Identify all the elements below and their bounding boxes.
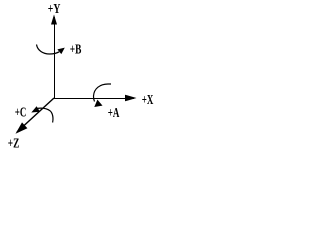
Z axis line — [17, 98, 54, 132]
rotation arc C around Z axis — [36, 108, 53, 122]
rotation arc A around X axis — [93, 84, 111, 102]
svg-text:+C: +C — [15, 106, 27, 121]
X axis line — [54, 98, 134, 100]
arrowhead of C arc — [31, 106, 40, 112]
svg-text:+X: +X — [142, 93, 154, 108]
svg-text:+Z: +Z — [8, 136, 20, 151]
arrowhead of B arc — [57, 48, 64, 55]
svg-text:+Y: +Y — [48, 2, 61, 17]
arrowhead of A arc — [94, 100, 102, 107]
rotation arc B around Y axis — [37, 45, 60, 55]
X axis arrowhead — [125, 95, 137, 102]
Z axis arrowhead — [16, 122, 28, 133]
svg-text:+B: +B — [70, 43, 82, 58]
Y axis arrowhead — [51, 15, 57, 25]
Y axis line — [54, 17, 56, 98]
svg-text:+A: +A — [108, 106, 120, 121]
